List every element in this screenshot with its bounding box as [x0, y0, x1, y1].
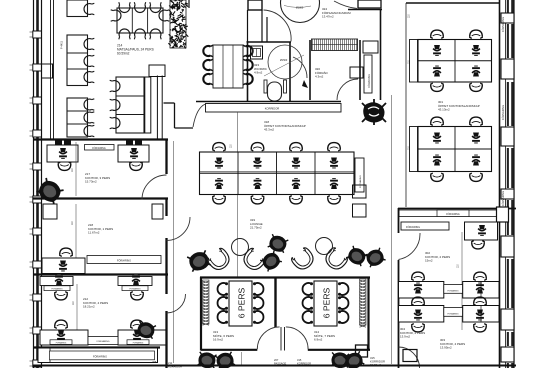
matsal table B chairs top	[119, 2, 130, 12]
cluster2 visitor chairs top	[430, 117, 444, 126]
upper right box	[358, 0, 381, 8]
room 302 left wall bottom stub	[398, 347, 400, 368]
room 218 forvaring strip	[87, 256, 161, 264]
svg-text:4.9m2: 4.9m2	[254, 71, 263, 75]
door arc 303	[399, 347, 420, 368]
table C chairs left	[110, 80, 120, 91]
room 218 cabinet left	[43, 204, 57, 219]
meeting rooms top wall	[200, 276, 370, 278]
top door arc near forsamlingsrum	[334, 1, 357, 9]
lounge round table 1	[232, 239, 249, 256]
cluster2 task chairs	[433, 133, 441, 144]
svg-text:PASSAGE: PASSAGE	[274, 361, 286, 365]
svg-text:60.59m2: 60.59m2	[117, 52, 130, 56]
chairs 313 right	[253, 282, 263, 295]
room 212 chairs mid	[54, 320, 68, 329]
vestibule wall bottom	[175, 127, 194, 129]
meeting room right wall	[367, 277, 369, 351]
matsal table C	[116, 77, 144, 133]
room 301 left wall	[405, 3, 407, 207]
svg-text:FÖRVARING: FÖRVARING	[447, 289, 459, 292]
matsal horizontal table B	[117, 8, 163, 33]
wall top piece	[348, 9, 382, 11]
svg-text:18.21m2: 18.21m2	[83, 305, 95, 309]
svg-text:13.47m2: 13.47m2	[322, 15, 334, 19]
round table big	[281, 0, 320, 23]
dimension 302	[461, 232, 463, 330]
chairs 303 top	[411, 272, 425, 281]
svg-text:FÖRVARING: FÖRVARING	[446, 213, 460, 216]
top small room box	[248, 0, 262, 10]
room 302 left wall upper	[398, 208, 400, 233]
box in room 314	[356, 345, 368, 357]
corner column box	[497, 207, 509, 222]
svg-text:FÖRVARING: FÖRVARING	[93, 356, 107, 359]
svg-text:FÖRVARING: FÖRVARING	[56, 341, 67, 344]
korridor label box right	[437, 210, 469, 217]
room 217 desk 1	[47, 145, 78, 162]
room 302 door arc	[399, 233, 421, 260]
central task chairs row1	[215, 158, 223, 169]
door leaf mark	[302, 80, 308, 88]
right desk cluster 2	[418, 127, 492, 172]
svg-text:211: 211	[168, 361, 173, 365]
svg-text:FÖRVARING: FÖRVARING	[359, 175, 362, 188]
lounge dark chair right2	[364, 247, 386, 268]
room 302 left wall lower	[398, 260, 400, 347]
forvaring cabinet vertical	[364, 55, 372, 93]
central task chairs row2	[215, 178, 223, 189]
top wall right section	[406, 2, 500, 4]
cluster1 task chairs	[433, 45, 441, 56]
matsal-wc dividing wall	[156, 76, 158, 140]
svg-text:FÖRVARING: FÖRVARING	[129, 288, 141, 291]
desk group B row2	[463, 306, 499, 323]
room 217 dark chair	[35, 177, 64, 205]
wall under matsal	[33, 138, 168, 140]
svg-text:FÖRVARING: FÖRVARING	[133, 341, 144, 344]
svg-text:P 4411: P 4411	[60, 40, 64, 49]
lounge dark chair right1	[346, 245, 369, 267]
double door leaves	[280, 327, 282, 351]
svg-text:FÖRVARING: FÖRVARING	[406, 226, 420, 229]
svg-text:FÖRVARING: FÖRVARING	[97, 340, 110, 343]
cluster2 side cabinet	[410, 127, 418, 172]
room 212 desk top2	[118, 277, 152, 286]
svg-text:4.3m2: 4.3m2	[315, 75, 324, 79]
connector strips A	[444, 285, 463, 294]
desk group B row1	[463, 282, 499, 299]
central top visitor chairs	[212, 143, 226, 152]
room 301 bottom wall	[398, 208, 516, 210]
room 212 strip top2	[122, 286, 148, 291]
meeting rooms bottom wall	[201, 349, 257, 351]
svg-text:6.9m2: 6.9m2	[314, 338, 323, 342]
svg-text:FÖRVARING: FÖRVARING	[368, 74, 371, 88]
matsal chairs right of column A	[84, 3, 94, 14]
central bottom visitor chairs	[212, 195, 226, 204]
svg-text:Ø1800: Ø1800	[296, 7, 304, 10]
dim 217	[75, 142, 77, 196]
desk group A row1	[399, 282, 444, 299]
room 212 desk bottom2	[118, 330, 167, 345]
wall stub 2 above wc	[266, 17, 268, 42]
left exterior wall inner line	[41, 0, 43, 368]
svg-text:208: 208	[152, 360, 157, 364]
desk group A row2	[399, 306, 444, 323]
cluster1 visitor chairs top	[430, 30, 444, 39]
meeting room hatched strip left	[203, 280, 210, 325]
chairs 314 right	[338, 282, 348, 295]
table D chairs right	[243, 45, 252, 56]
door arc 314	[286, 327, 308, 349]
wc circle annotation	[264, 55, 304, 76]
room 218 cabinet right	[152, 204, 163, 219]
central desk block	[200, 152, 355, 195]
wall 218/212	[33, 273, 168, 275]
box right of cluster 1	[353, 185, 367, 198]
lounge round table 2	[316, 238, 333, 255]
wc sink	[251, 46, 263, 59]
room 217 desk 2	[118, 145, 149, 162]
dark chairs below 313	[197, 351, 216, 368]
wall between meeting rooms	[274, 277, 276, 327]
svg-text:KORRIDOR: KORRIDOR	[265, 107, 280, 111]
svg-text:13.95m2: 13.95m2	[440, 346, 452, 350]
cluster2 visitor chairs bottom	[430, 173, 444, 182]
svg-text:43.13m2: 43.13m2	[438, 108, 450, 112]
room 212 strip bottom1	[50, 340, 72, 345]
central desk inner lines	[200, 172, 355, 174]
svg-text:13.9m2: 13.9m2	[400, 335, 410, 339]
svg-text:11.67m2: 11.67m2	[88, 231, 100, 235]
vestibule wall top	[164, 102, 175, 104]
cluster1 side cabinet	[410, 40, 418, 83]
corridor band bar	[206, 104, 342, 113]
svg-text:KORRIDOR: KORRIDOR	[152, 363, 166, 367]
chairs 314 left	[303, 282, 313, 295]
room 217 forvaring box	[85, 145, 115, 151]
svg-text:FÖRVARING: FÖRVARING	[501, 17, 505, 32]
room 212 strip bottom2	[127, 340, 149, 345]
matsal table B chairs bottom	[119, 29, 130, 39]
lounge chairs group2	[290, 246, 317, 272]
office chair scribble (free)	[362, 99, 386, 125]
small box above table C	[149, 65, 165, 77]
wc room left wall	[247, 41, 249, 101]
svg-text:16.9m2: 16.9m2	[213, 338, 223, 342]
right desk cluster 1	[418, 40, 492, 83]
svg-text:6 PERS: 6 PERS	[322, 287, 332, 318]
right wall mullion boxes	[501, 13, 514, 23]
svg-text:43.3m2: 43.3m2	[264, 128, 274, 132]
lounge dark chair middle lower	[260, 250, 283, 273]
meeting table 313	[229, 281, 252, 326]
dim 212	[76, 284, 78, 330]
corridor top wall	[196, 101, 341, 103]
svg-text:FÖRVARING: FÖRVARING	[447, 312, 459, 315]
left wall column boxes	[33, 31, 42, 38]
wall vertical piece	[380, 10, 382, 101]
table C screen	[145, 77, 151, 133]
right exterior wall line	[499, 0, 501, 368]
wall stub above wc	[261, 10, 263, 42]
matsal table B end chairs	[111, 10, 121, 21]
forrad right wall	[359, 40, 361, 100]
desk top right 302	[465, 222, 498, 240]
svg-text:FÖRVARING: FÖRVARING	[117, 260, 131, 263]
svg-text:KORRIDOR: KORRIDOR	[297, 361, 311, 365]
svg-text:FÖRVARING: FÖRVARING	[501, 105, 505, 120]
vestibule wall vertical	[174, 103, 176, 128]
right wall glazing	[507, 0, 509, 13]
table D chairs left	[203, 45, 212, 56]
vestibule door arc	[193, 104, 206, 127]
forrad door arc	[337, 79, 358, 100]
right window band outer	[513, 0, 515, 368]
corridor dark chair	[187, 249, 212, 273]
room 218 desk	[42, 258, 85, 274]
bottom wall	[33, 365, 516, 367]
wall 217/218	[33, 197, 168, 199]
room 212 dark chair	[136, 320, 156, 340]
label 207 leader line	[241, 352, 243, 366]
left wall glazing segments	[36, 0, 39, 31]
svg-text:FÖRVARING: FÖRVARING	[51, 288, 63, 291]
wc turning circle	[268, 45, 302, 79]
meeting room hatched strip right	[360, 279, 367, 327]
cluster1 visitor chairs bottom	[430, 83, 444, 92]
dim 218	[75, 204, 77, 258]
dark chairs below 314	[331, 352, 349, 368]
room 212 strip top1	[44, 286, 70, 291]
svg-text:FÖRVARING: FÖRVARING	[92, 147, 106, 150]
small box at 303 door	[403, 350, 417, 362]
chairs 303 bottom	[411, 323, 425, 332]
left wall window box	[42, 64, 53, 78]
svg-text:15m2: 15m2	[425, 259, 433, 263]
svg-text:21.75m2: 21.75m2	[250, 226, 262, 230]
dimension line central	[237, 112, 239, 152]
svg-text:315: 315	[297, 358, 302, 362]
cabinet right of central block upper	[355, 158, 364, 192]
left exterior wall outer line	[33, 0, 35, 368]
room 212 desk top1	[40, 277, 73, 286]
door arc left of forrad	[293, 57, 307, 78]
plants dark strip	[168, 0, 188, 49]
svg-text:FÖRVARING: FÖRVARING	[501, 191, 505, 206]
room 302 top cabinet band	[401, 222, 449, 230]
right window band inner	[505, 0, 507, 368]
room 218 visitor chair	[59, 248, 73, 257]
svg-text:15.83m2: 15.83m2	[370, 363, 381, 367]
lounge chairs group1	[206, 247, 233, 273]
meeting room left wall	[200, 277, 202, 351]
diameter annotation	[284, 6, 311, 8]
forrad wall box	[350, 67, 363, 78]
meeting table 314	[314, 281, 337, 326]
wc door arc	[264, 10, 292, 42]
door arc 313	[257, 327, 279, 349]
door arc 218	[167, 217, 191, 241]
wc room right wall	[289, 42, 291, 101]
rooms right wall segments	[165, 139, 167, 174]
wall under 212	[33, 346, 160, 348]
forvaring bar bottom	[38, 348, 158, 363]
room 212 desk bottom1	[40, 330, 88, 345]
svg-text:Ø1500: Ø1500	[280, 59, 288, 62]
svg-text:6 PERS: 6 PERS	[237, 287, 247, 318]
chairs 313 left	[218, 282, 228, 295]
wall left of wc upper	[247, 10, 249, 42]
dining table D	[213, 45, 243, 88]
forrad shelf comb	[312, 39, 358, 51]
svg-text:15.73m2: 15.73m2	[85, 180, 97, 184]
box right of cluster 2	[353, 204, 367, 217]
door arc 217	[142, 175, 167, 200]
matsal table column A	[67, 0, 88, 17]
lounge dark chair middle upper	[267, 233, 288, 254]
forrad left wall	[309, 40, 311, 100]
room 212 connector strip	[88, 337, 118, 345]
chairs 303 middle	[411, 297, 425, 306]
corridor dim line right	[391, 95, 393, 364]
cabinet strip right of forrad	[363, 41, 378, 53]
wc room top wall	[247, 41, 292, 43]
door arc 212	[167, 294, 186, 313]
matsal inner wall double line	[50, 0, 52, 139]
corridor dimension line	[173, 141, 175, 363]
wc toilet	[268, 82, 282, 101]
svg-text:207: 207	[274, 358, 279, 362]
wall stub right of plants	[188, 0, 190, 8]
